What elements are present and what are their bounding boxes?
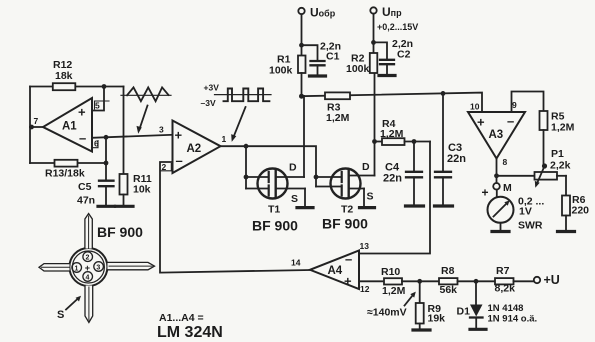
resistor R9 [419,281,421,303]
ground R11 [116,205,134,208]
transistor T2 BF900 [331,169,361,199]
svg-text:1,2M: 1,2M [380,128,404,140]
svg-text:+U: +U [544,273,560,287]
resistor R6 [565,176,567,196]
svg-text:1,2M: 1,2M [326,112,350,124]
svg-text:2,2k: 2,2k [550,160,571,172]
wire T1 drain up [303,96,305,177]
svg-text:C2: C2 [397,49,411,61]
svg-text:–: – [507,114,514,129]
node C1 tap [299,43,304,48]
wire pin2 down to A4 output [160,162,310,273]
svg-text:8: 8 [503,157,508,167]
svg-text:P1: P1 [551,148,564,160]
package lead left [39,264,70,271]
svg-text:S: S [367,191,374,203]
svg-text:R13/18k: R13/18k [45,168,85,180]
svg-text:A2: A2 [187,143,202,155]
wire A1 output to tip [30,126,43,128]
svg-text:8,2k: 8,2k [495,283,516,295]
resistor R3 [325,92,350,99]
resistor R7 [495,278,514,284]
svg-text:M: M [503,182,512,194]
svg-text:4: 4 [86,275,90,282]
triangle wave icon [121,94,171,96]
node A1 output [29,125,34,130]
pin 6 bracket [92,141,99,148]
meter SWR [496,190,498,198]
wire T2 drain up to R2 [374,73,376,176]
svg-text:D1: D1 [457,306,471,318]
svg-text:–3V: –3V [201,98,216,108]
pin 5 bracket [95,101,110,109]
svg-text:1N 914 o.ä.: 1N 914 o.ä. [488,314,538,325]
wire T1 source + ground [304,189,306,207]
svg-text:–: – [345,252,352,267]
svg-text:1: 1 [75,266,79,273]
terminal M [496,176,498,183]
wire to P1 [497,175,535,177]
svg-text:19k: 19k [428,313,446,325]
ground C5 [98,205,115,208]
wire to R11 [123,87,125,175]
capacitor C2 [374,42,388,59]
svg-text:13: 13 [360,241,370,251]
resistor R11 [120,174,128,195]
svg-text:D: D [289,162,297,174]
node T2 gates [314,175,319,180]
svg-text:56k: 56k [440,284,458,296]
svg-text:BF 900: BF 900 [97,224,143,240]
resistor R10 [384,278,402,284]
op-amp A4 [310,251,359,290]
terminal Uobr [298,8,304,14]
arrow to triangle node [140,106,148,130]
op-amp A1 [43,98,92,152]
wire pin6 to A2 pin3 [92,135,173,138]
wire pin6 node down [105,137,107,163]
svg-text:BF 900: BF 900 [322,216,368,232]
svg-text:3: 3 [159,125,164,135]
svg-text:–: – [176,153,183,168]
svg-text:+: + [477,115,485,130]
svg-text:1N 4148: 1N 4148 [488,303,524,314]
svg-text:A1: A1 [62,121,77,133]
wire pin12 [359,280,383,282]
svg-text:LM 324N: LM 324N [157,324,223,341]
svg-text:C5: C5 [78,181,92,193]
svg-text:T1: T1 [268,204,280,216]
svg-text:2: 2 [86,255,90,262]
svg-text:1: 1 [222,134,227,144]
square wave icon [215,94,272,96]
svg-text:5: 5 [95,101,100,111]
svg-text:18k: 18k [55,70,73,82]
svg-text:3: 3 [96,265,100,272]
wire A3 output [496,159,498,176]
svg-text:A4: A4 [328,265,343,277]
svg-text:Uобр: Uобр [310,6,336,20]
svg-text:14: 14 [291,258,301,268]
svg-text:22n: 22n [447,153,466,165]
wire pin 5 [92,87,104,111]
node R10/R9 [417,279,422,284]
svg-text:+: + [85,263,90,273]
svg-text:–: – [79,131,86,146]
capacitor C4 [413,142,415,172]
terminal +U [534,277,540,283]
svg-text:C1: C1 [326,51,340,63]
svg-text:R7: R7 [496,265,510,277]
node R12/pin5 [102,84,107,89]
terminal Upr [370,7,376,13]
svg-text:7: 7 [34,116,39,126]
svg-text:D: D [362,161,370,173]
svg-text:+0,2...15V: +0,2...15V [377,22,418,32]
resistor R2 [370,53,378,73]
svg-text:S: S [57,309,64,321]
resistor R4 [375,141,383,143]
svg-text:R10: R10 [381,266,400,278]
node pin6 [104,135,109,140]
svg-text:S: S [291,193,298,205]
svg-text:22n: 22n [383,173,402,185]
svg-text:10k: 10k [133,184,151,196]
resistor R1 [298,56,306,74]
svg-text:≈140mV: ≈140mV [367,307,407,319]
svg-text:+: + [482,186,489,200]
node R5 wiper [542,163,547,168]
capacitor C1 [302,45,318,60]
node R4 right [412,139,417,144]
resistor R5 [540,111,548,130]
capacitor C5 [105,163,107,180]
capacitor C3 [442,93,444,171]
node A (R1/T1 drain) [299,94,304,99]
svg-text:6: 6 [94,139,99,149]
node T1 gates [244,175,249,180]
svg-text:R8: R8 [441,265,455,277]
svg-text:A1...A4 =: A1...A4 = [159,312,204,324]
node A3 out [494,173,499,178]
wire to A4 pin13 [359,142,430,254]
diode D1 [475,281,477,304]
svg-text:1,2M: 1,2M [382,285,406,297]
wire main summing run to A3 pin10 [302,93,483,112]
svg-text:A3: A3 [489,129,504,141]
resistor R8 [439,278,458,284]
potentiometer P1 [535,172,558,180]
svg-text:1,2M: 1,2M [551,122,575,134]
node R4 left [372,139,377,144]
wire T1 gate vertical [245,146,247,188]
package lead top [85,214,92,249]
svg-text:SWR: SWR [518,220,543,232]
wire A2 output [221,146,317,186]
node C5 [104,161,109,166]
node C3 tap [441,91,446,96]
pin 2 bracket [161,164,172,171]
op-amp A2 [173,121,221,174]
node T1 gate tap [244,144,249,149]
package lead bottom [85,286,93,323]
transistor T1 BF900 [258,169,288,199]
wire A1 left feedback vertical [29,87,31,164]
package pin circles [72,263,82,273]
svg-text:9: 9 [512,100,517,110]
svg-text:10: 10 [470,102,480,112]
svg-text:+: + [344,274,352,289]
svg-text:47n: 47n [77,195,95,207]
op-amp A3 [468,112,525,159]
svg-text:+3V: +3V [204,83,220,93]
svg-text:Uпр: Uпр [382,5,402,19]
svg-text:100k: 100k [346,63,370,75]
svg-text:+: + [78,105,86,120]
svg-text:100k: 100k [269,65,293,77]
resistor R13 [30,162,106,164]
svg-text:BF 900: BF 900 [252,218,298,234]
wire T2 source + ground [363,189,365,207]
svg-text:+: + [175,128,183,143]
wire R12 top run [30,86,124,88]
package lead right [108,262,155,269]
node C2 tap [371,40,376,45]
resistor R12 [53,83,76,90]
svg-text:220: 220 [572,205,590,217]
svg-text:12: 12 [360,284,370,294]
BF900 package [69,248,107,286]
arrow to A2 output [234,107,246,137]
node R8/D1 [474,279,479,284]
wire pin9 feedback loop [512,92,544,113]
svg-text:T2: T2 [341,204,353,216]
svg-text:1V: 1V [519,206,532,218]
